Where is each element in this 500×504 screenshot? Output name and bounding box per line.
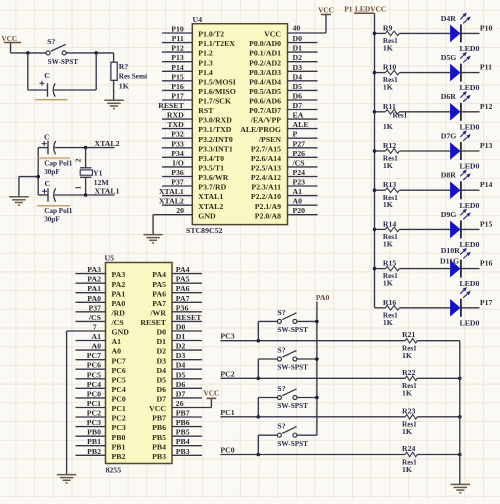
U4 left pin 3 (P1.2) stub wire xyxy=(162,51,192,53)
svg-text:RESET: RESET xyxy=(158,101,184,110)
svg-text:PB0: PB0 xyxy=(87,428,101,437)
svg-text:VCC: VCC xyxy=(318,5,334,14)
wire PC1 row xyxy=(220,416,405,418)
svg-text:PC1: PC1 xyxy=(112,404,126,413)
U5 right pin (D7) stub wire xyxy=(172,397,202,399)
wire U5 pin 26 to VCC xyxy=(172,407,211,409)
U5 left pin (PC2) stub wire xyxy=(76,416,106,418)
U4 left pin 8 (P1.7/SCK) stub wire xyxy=(162,99,192,101)
resistor R16 Res1 1K xyxy=(375,307,386,309)
wire PC0 row xyxy=(220,454,405,456)
svg-text:XTAL2: XTAL2 xyxy=(159,197,184,206)
svg-text:LED0: LED0 xyxy=(460,201,480,210)
svg-text:P1.2: P1.2 xyxy=(198,49,213,58)
U5 left pin (PC6) stub wire xyxy=(76,368,106,370)
svg-text:1: 1 xyxy=(74,186,82,190)
svg-text:PC5: PC5 xyxy=(112,375,126,384)
svg-text:I/O: I/O xyxy=(173,158,184,167)
U5 left pin (PA1) stub wire xyxy=(76,292,106,294)
svg-text:P23: P23 xyxy=(293,178,306,187)
svg-text:R23: R23 xyxy=(402,406,416,415)
svg-text:D4R: D4R xyxy=(441,14,457,23)
wire PA0 rail xyxy=(316,302,318,436)
svg-text:PA4: PA4 xyxy=(152,270,166,279)
svg-text:GND: GND xyxy=(198,211,216,220)
wire LED to P13 xyxy=(461,150,480,152)
svg-text:P1: P1 xyxy=(344,5,353,14)
U4 right pin (P2.4/A12) stub wire xyxy=(288,176,318,178)
U5 right pin (PA5) stub wire xyxy=(172,282,202,284)
wire LED to P17 xyxy=(461,307,480,309)
svg-text:PC0: PC0 xyxy=(220,446,234,455)
U4 right pin (P2.7/A15) stub wire xyxy=(288,147,318,149)
svg-text:P0.0/AD0: P0.0/AD0 xyxy=(249,39,281,48)
wire to crystal ground xyxy=(19,176,38,178)
svg-text:P: P xyxy=(293,130,298,139)
svg-text:VCC: VCC xyxy=(264,30,281,39)
svg-text:P10: P10 xyxy=(171,25,184,34)
LED D4R LED0 xyxy=(450,25,460,43)
svg-text:PA7: PA7 xyxy=(152,299,166,308)
svg-text:1K: 1K xyxy=(383,122,393,131)
U4 left pin 2 (P1.1/T2EX) stub wire xyxy=(162,42,192,44)
svg-text:30pF: 30pF xyxy=(44,168,60,176)
svg-text:VCC: VCC xyxy=(1,34,17,43)
svg-text:P12: P12 xyxy=(480,102,493,111)
LED D5G LED0 xyxy=(450,64,460,82)
U4 left pin 11 (P3.1/TXD) stub wire xyxy=(162,128,192,130)
svg-text:R24: R24 xyxy=(402,444,416,453)
svg-text:Y1: Y1 xyxy=(93,168,103,177)
wire switch to PA0 rail xyxy=(297,434,317,436)
svg-text:SW-SPST: SW-SPST xyxy=(48,58,79,66)
svg-text:PA2: PA2 xyxy=(87,275,101,284)
resistor R14 Res1 1K xyxy=(375,228,386,230)
node junction right of switch xyxy=(94,51,98,55)
U4 left pin 1 (P1.0/T2) stub wire xyxy=(162,32,192,34)
svg-text:D5: D5 xyxy=(156,375,166,384)
svg-text:PA1: PA1 xyxy=(112,289,126,298)
svg-text:PC7: PC7 xyxy=(112,356,126,365)
svg-text:D1: D1 xyxy=(156,337,166,346)
svg-text:P2.7/A15: P2.7/A15 xyxy=(251,144,281,153)
capacitor C Cap Pol1 30pF (bottom) xyxy=(38,194,48,196)
svg-text:P14: P14 xyxy=(171,63,184,72)
svg-text:PC2: PC2 xyxy=(112,414,126,423)
U5 left pin (PC0) stub wire xyxy=(76,397,106,399)
svg-text:D5: D5 xyxy=(176,370,186,379)
svg-text:D0: D0 xyxy=(293,34,303,43)
svg-text:R?: R? xyxy=(119,62,129,71)
svg-text:LED0: LED0 xyxy=(460,240,480,249)
svg-text:D0: D0 xyxy=(156,328,166,337)
svg-text:GND: GND xyxy=(112,328,130,337)
svg-text:P37: P37 xyxy=(171,178,184,187)
U5 left pin (PA3) stub wire xyxy=(76,273,106,275)
svg-text:PC1: PC1 xyxy=(87,399,101,408)
svg-text:R10: R10 xyxy=(383,63,397,72)
U4 right pin (P2.1/A9) stub wire xyxy=(288,204,318,206)
svg-text:P27: P27 xyxy=(293,139,306,148)
U4 left pin 7 (P1.6/MISO) stub wire xyxy=(162,89,192,91)
node junction LEDVCC rail row 7 xyxy=(373,267,377,271)
LED D9G LED0 xyxy=(450,221,460,239)
switch S? SW-SPST (row 3) xyxy=(257,398,259,417)
node junction PC0 xyxy=(257,453,261,457)
svg-text:D2: D2 xyxy=(293,53,303,62)
svg-text:ALE/PROG: ALE/PROG xyxy=(240,125,281,134)
svg-text:D3: D3 xyxy=(156,356,166,365)
svg-text:P3.0/RXD: P3.0/RXD xyxy=(198,116,232,125)
svg-text:LED0: LED0 xyxy=(460,122,480,131)
U5 right pin (D2) stub wire xyxy=(172,349,202,351)
resistor R21 Res1 1K xyxy=(405,338,417,343)
svg-text:1K: 1K xyxy=(383,83,393,92)
wire ground rail (right) xyxy=(459,341,461,485)
U4 left pin 13 (P3.3/INT1) stub wire xyxy=(162,147,192,149)
svg-text:/RD: /RD xyxy=(111,308,126,317)
svg-text:D7G: D7G xyxy=(441,131,457,140)
U4 right pin (P2.5/A13) stub wire xyxy=(288,166,318,168)
node junction on PA0 rail xyxy=(315,320,319,324)
node junction on crystal rail xyxy=(36,175,40,179)
svg-text:PB3: PB3 xyxy=(176,447,190,456)
U4 left pin 15 (P3.5/T1) stub wire xyxy=(162,166,192,168)
svg-text:P37: P37 xyxy=(88,303,101,312)
svg-text:PA5: PA5 xyxy=(152,280,166,289)
svg-text:P15: P15 xyxy=(480,219,493,228)
svg-text:D7: D7 xyxy=(156,395,166,404)
U5 left pin (PC7) stub wire xyxy=(76,359,106,361)
wire pin 20 to ground xyxy=(153,214,192,216)
wire LED to P12 xyxy=(461,111,480,113)
svg-text:D6: D6 xyxy=(293,92,303,101)
node junction PC3 xyxy=(257,339,261,343)
svg-text:XTAL1: XTAL1 xyxy=(159,187,184,196)
svg-text:PB1: PB1 xyxy=(87,437,101,446)
svg-text:D10R: D10R xyxy=(441,246,460,255)
svg-text:D3: D3 xyxy=(176,351,186,360)
U5 left pin (PA2) stub wire xyxy=(76,282,106,284)
svg-text:/PSEN: /PSEN xyxy=(258,135,281,144)
svg-text:EA: EA xyxy=(293,111,304,120)
node junction on PA0 rail xyxy=(315,357,319,361)
resistor R12 Res1 1K xyxy=(375,150,386,152)
svg-text:PA2: PA2 xyxy=(112,280,126,289)
svg-text:D6: D6 xyxy=(176,380,186,389)
svg-text:26: 26 xyxy=(176,399,184,408)
svg-text:LED0: LED0 xyxy=(460,83,480,92)
svg-text:P17: P17 xyxy=(480,298,493,307)
LED D6R LED0 xyxy=(450,103,460,121)
svg-text:P3.3/INT1: P3.3/INT1 xyxy=(198,144,233,153)
svg-text:PB6: PB6 xyxy=(152,423,166,432)
wire LED to P11 xyxy=(461,72,480,74)
svg-text:PA3: PA3 xyxy=(112,270,126,279)
svg-text:PB1: PB1 xyxy=(112,442,126,451)
node junction on ground rail xyxy=(458,415,462,419)
svg-text:D9G: D9G xyxy=(441,210,457,219)
U5 right pin (/WR) stub wire xyxy=(172,311,202,313)
U5 left pin (/CS) stub wire xyxy=(76,320,106,322)
svg-text:P13: P13 xyxy=(171,53,184,62)
resistor R? Res Semi 1K (top left) xyxy=(113,53,115,62)
svg-text:R9: R9 xyxy=(383,23,393,32)
svg-text:30pF: 30pF xyxy=(44,216,60,224)
LED D7G LED0 xyxy=(450,142,460,160)
wire switch to PA0 rail xyxy=(297,397,317,399)
svg-text:P2.4/A12: P2.4/A12 xyxy=(251,173,281,182)
U4 right pin (P0.2/AD2) stub wire xyxy=(288,61,318,63)
svg-text:P1.3: P1.3 xyxy=(198,58,213,67)
svg-text:PC0: PC0 xyxy=(87,389,101,398)
svg-text:PC3: PC3 xyxy=(87,418,101,427)
svg-text:C: C xyxy=(44,133,50,142)
svg-text:D4: D4 xyxy=(156,366,166,375)
svg-text:Res Semi: Res Semi xyxy=(119,73,147,81)
svg-text:P26: P26 xyxy=(293,149,306,158)
svg-text:XTAL2: XTAL2 xyxy=(198,202,223,211)
svg-text:SW-SPST: SW-SPST xyxy=(277,440,308,448)
svg-text:RXD: RXD xyxy=(167,111,184,120)
svg-text:P0.7/AD7: P0.7/AD7 xyxy=(249,106,281,115)
U5 right pin (PB4) stub wire xyxy=(172,445,202,447)
svg-text:LED0: LED0 xyxy=(460,318,480,327)
svg-text:P14: P14 xyxy=(480,180,493,189)
wire VCC to switch S? xyxy=(10,43,12,53)
resistor R9 Res1 1K xyxy=(375,32,386,34)
svg-text:P11: P11 xyxy=(480,63,492,72)
svg-text:SW-SPST: SW-SPST xyxy=(277,402,308,410)
resistor R23 Res1 1K xyxy=(405,415,417,420)
wire PC2 row xyxy=(220,377,405,379)
svg-text:PC4: PC4 xyxy=(87,380,101,389)
U5 right pin (D4) stub wire xyxy=(172,368,202,370)
capacitor C (top left, polarized) xyxy=(27,53,29,90)
U5 right pin (D0) stub wire xyxy=(172,330,202,332)
U5 right pin (RESET) stub wire xyxy=(172,320,202,322)
wire LED to P14 xyxy=(461,189,480,191)
svg-text:40: 40 xyxy=(293,24,301,33)
svg-text:P3.6/WR: P3.6/WR xyxy=(198,173,228,182)
wire switch to PA0 rail xyxy=(297,320,317,322)
svg-text:PB5: PB5 xyxy=(176,428,190,437)
svg-text:PA4: PA4 xyxy=(176,265,190,274)
svg-text:P1.7/SCK: P1.7/SCK xyxy=(198,97,231,106)
U5 right pin (D1) stub wire xyxy=(172,340,202,342)
switch S? SW-SPST (row 1) xyxy=(257,321,259,340)
svg-text:XTAL1: XTAL1 xyxy=(198,192,223,201)
node XTAL1 junction xyxy=(84,193,88,197)
svg-text:U5: U5 xyxy=(105,254,115,263)
wire crystal left rail xyxy=(37,148,39,195)
svg-text:P3.4/T0: P3.4/T0 xyxy=(198,154,224,163)
U4 right pin (P0.1/AD1) stub wire xyxy=(288,51,318,53)
U4 left pin 18 (XTAL1) stub wire xyxy=(162,195,192,197)
svg-text:P32: P32 xyxy=(171,130,184,139)
resistor R10 Res1 1K xyxy=(375,72,386,74)
LED D11G LED0 xyxy=(450,299,460,317)
svg-text:1K: 1K xyxy=(383,318,393,327)
power port VCC (top left) xyxy=(4,42,21,44)
svg-text:PC5: PC5 xyxy=(87,370,101,379)
U5 left pin (PC4) stub wire xyxy=(76,387,106,389)
power port VCC (U5 pin 26) xyxy=(207,397,217,399)
svg-text:PC3: PC3 xyxy=(112,423,126,432)
node junction on PA0 rail xyxy=(315,396,319,400)
U4 left pin 19 (XTAL2) stub wire xyxy=(162,204,192,206)
svg-text:P15: P15 xyxy=(171,72,184,81)
svg-text:D2: D2 xyxy=(176,342,186,351)
svg-text:D1: D1 xyxy=(176,332,186,341)
U5 right pin (D3) stub wire xyxy=(172,359,202,361)
svg-text:P1.1/T2EX: P1.1/T2EX xyxy=(198,39,235,48)
svg-text:P0.6/AD6: P0.6/AD6 xyxy=(249,97,281,106)
resistor R11 Res1 1K xyxy=(375,111,386,113)
U5 left pin (/RD) stub wire xyxy=(76,311,106,313)
svg-text:R14: R14 xyxy=(383,219,397,228)
svg-text:PB5: PB5 xyxy=(152,433,166,442)
ground (crystal) xyxy=(9,197,28,205)
svg-text:D4: D4 xyxy=(293,72,303,81)
U4 right pin (ALE/PROG) stub wire xyxy=(288,128,318,130)
svg-text:1K: 1K xyxy=(383,43,393,52)
U5 left pin (PB0) stub wire xyxy=(76,435,106,437)
svg-text:S?: S? xyxy=(277,346,285,355)
svg-text:A1: A1 xyxy=(91,332,101,341)
svg-text:D6: D6 xyxy=(156,385,166,394)
resistor R22 Res1 1K xyxy=(405,376,417,381)
svg-text:P2.3/A11: P2.3/A11 xyxy=(251,183,281,192)
svg-text:P0.3/AD3: P0.3/AD3 xyxy=(249,68,281,77)
svg-text:P3.5/T1: P3.5/T1 xyxy=(198,164,224,173)
ground (U5 pin 7) xyxy=(57,475,76,483)
IC U5 8255 body xyxy=(106,263,173,464)
LED D8R LED0 xyxy=(450,181,460,199)
svg-text:PB6: PB6 xyxy=(176,418,190,427)
U4 left pin 6 (P1.5/MOSI) stub wire xyxy=(162,80,192,82)
node junction PC1 xyxy=(257,415,261,419)
svg-text:R16: R16 xyxy=(383,298,397,307)
U5 left pin (PC3) stub wire xyxy=(76,426,106,428)
U4 left pin 12 (P3.2/INT0) stub wire xyxy=(162,137,192,139)
U5 left pin (PC5) stub wire xyxy=(76,378,106,380)
U4 right pin (P2.2/A10) stub wire xyxy=(288,195,318,197)
U4 right pin (P2.6/A14) stub wire xyxy=(288,156,318,158)
U5 left pin (A0) stub wire xyxy=(76,349,106,351)
svg-text:7: 7 xyxy=(93,323,97,332)
svg-text:8255: 8255 xyxy=(106,466,122,475)
U5 right pin (D5) stub wire xyxy=(172,378,202,380)
svg-text:R12: R12 xyxy=(383,141,397,150)
U5 left pin (PA0) stub wire xyxy=(76,301,106,303)
svg-text:ALE: ALE xyxy=(293,120,309,129)
svg-text:1K: 1K xyxy=(383,239,393,248)
svg-text:SW-SPST: SW-SPST xyxy=(277,364,308,372)
svg-text:R11: R11 xyxy=(383,102,396,111)
U4 right pin (/EA/VPP) stub wire xyxy=(288,118,318,120)
U4 right pin (P0.3/AD3) stub wire xyxy=(288,70,318,72)
U4 left pin 16 (P3.6/WR) stub wire xyxy=(162,176,192,178)
svg-text:A1: A1 xyxy=(112,337,122,346)
svg-text:P13: P13 xyxy=(480,141,493,150)
wire LEDVCC rail xyxy=(374,13,376,308)
svg-text:LED0: LED0 xyxy=(460,279,480,288)
svg-text:P1.5/MOSI: P1.5/MOSI xyxy=(198,77,235,86)
ground (bottom right) xyxy=(451,484,470,492)
switch S? SW-SPST (top left) xyxy=(46,51,50,55)
U5 left pin (PB2) stub wire xyxy=(76,454,106,456)
wire switch to PA0 rail xyxy=(297,358,317,360)
svg-text:P2.5/A13: P2.5/A13 xyxy=(251,164,281,173)
node junction LEDVCC rail row 3 xyxy=(373,110,377,114)
svg-text:1K: 1K xyxy=(402,465,412,474)
node junction LEDVCC rail row 5 xyxy=(373,188,377,192)
svg-text:STC89C52: STC89C52 xyxy=(186,226,222,235)
svg-text:LED0: LED0 xyxy=(460,162,480,171)
U4 right pin (P0.0/AD0) stub wire xyxy=(288,42,318,44)
svg-text:PC3: PC3 xyxy=(220,332,234,341)
svg-text:S?: S? xyxy=(277,422,285,431)
svg-text:A1: A1 xyxy=(293,187,303,196)
svg-text:RESET: RESET xyxy=(140,318,166,327)
U4 left pin 5 (P1.4) stub wire xyxy=(162,70,192,72)
U4 right pin (P2.0/A8) stub wire xyxy=(288,214,318,216)
U4 right pin (P0.6/AD6) stub wire xyxy=(288,99,318,101)
svg-text:P12: P12 xyxy=(171,44,184,53)
svg-text:/CS: /CS xyxy=(292,158,305,167)
power port VCC (U4 pin 40) xyxy=(321,14,331,16)
node junction LEDVCC rail row 6 xyxy=(373,228,377,232)
svg-text:R21: R21 xyxy=(402,330,416,339)
svg-text:P0.5/AD5: P0.5/AD5 xyxy=(249,87,281,96)
U4 right pin (P0.5/AD5) stub wire xyxy=(288,89,318,91)
svg-text:P33: P33 xyxy=(171,139,184,148)
svg-text:U4: U4 xyxy=(193,15,203,24)
U5 right pin (PB7) stub wire xyxy=(172,416,202,418)
svg-text:D8R: D8R xyxy=(441,171,457,180)
svg-text:D5: D5 xyxy=(293,82,303,91)
svg-text:1K: 1K xyxy=(383,161,393,170)
svg-text:D4: D4 xyxy=(176,361,186,370)
svg-text:D0: D0 xyxy=(176,323,186,332)
svg-text:P34: P34 xyxy=(171,149,184,158)
svg-text:1K: 1K xyxy=(402,389,412,398)
svg-text:PB0: PB0 xyxy=(112,433,126,442)
wire LED to P16 xyxy=(461,268,480,270)
wire LED to P15 xyxy=(461,228,480,230)
svg-text:XTAL1: XTAL1 xyxy=(95,186,120,195)
wire to XTAL1 label xyxy=(86,194,115,196)
svg-text:1K: 1K xyxy=(119,82,129,91)
capacitor C Cap Pol1 30pF (top) xyxy=(38,147,48,149)
svg-text:P16: P16 xyxy=(480,259,493,268)
svg-text:R13: R13 xyxy=(383,180,397,189)
U4 left pin 17 (P3.7/RD) stub wire xyxy=(162,185,192,187)
node junction LEDVCC rail row 1 xyxy=(373,32,377,36)
svg-text:PA1: PA1 xyxy=(87,284,101,293)
node junction LEDVCC rail row 4 xyxy=(373,149,377,153)
node junction PC2 xyxy=(257,377,261,381)
node junction on ground rail xyxy=(458,377,462,381)
svg-text:PC7: PC7 xyxy=(87,351,101,360)
U4 left pin 9 (RST) stub wire xyxy=(162,109,192,111)
ground (U4 pin 20) xyxy=(143,235,162,243)
svg-text:P16: P16 xyxy=(171,82,184,91)
svg-text:LED0: LED0 xyxy=(460,44,480,53)
U4 right pin (P2.3/A11) stub wire xyxy=(288,185,318,187)
svg-text:20: 20 xyxy=(176,206,184,215)
